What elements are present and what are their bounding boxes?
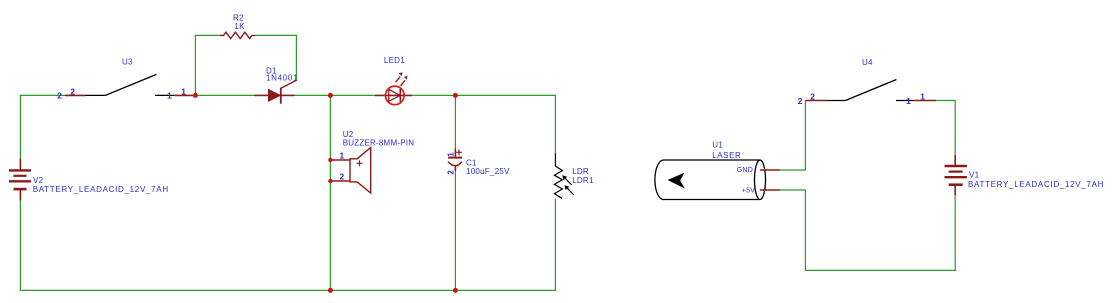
diode D1 — [255, 80, 297, 103]
LED LED1 — [375, 72, 412, 104]
svg-text:1K: 1K — [234, 22, 245, 31]
battery V1 — [945, 155, 967, 195]
battery V2 — [9, 159, 31, 201]
svg-text:V2: V2 — [33, 176, 44, 185]
wire top-left horizontal (battery V2 top to switch U3 pin2) — [20, 94, 65, 96]
svg-text:2: 2 — [70, 87, 75, 97]
wire C1 vertical lower — [454, 171, 456, 291]
switch U4 — [805, 80, 936, 101]
svg-text:2: 2 — [810, 92, 815, 102]
wire right vertical lower (LDR bottom to bottom rail) — [554, 199, 556, 291]
svg-text:BATTERY_LEADACID_12V_7AH: BATTERY_LEADACID_12V_7AH — [968, 180, 1104, 189]
wire right vertical upper (top rail corner to LDR top) — [554, 95, 556, 153]
svg-text:100uF_25V: 100uF_25V — [466, 167, 510, 176]
junction node (buzzer pin2) — [328, 179, 332, 183]
wire bottom rail — [20, 289, 556, 291]
svg-text:U1: U1 — [712, 140, 723, 149]
junction node (buzzer pin1) — [328, 158, 332, 162]
junction node (buzzer top rail) — [328, 93, 333, 98]
junction node (C1 bottom rail) — [453, 288, 458, 293]
svg-text:U3: U3 — [122, 57, 133, 66]
wire R2 branch left vertical — [194, 35, 196, 95]
wire top rail (LED1 to C1 junction) — [412, 94, 455, 96]
wire left vertical lower (V2 bottom to bottom rail) — [19, 201, 21, 292]
svg-text:LDR1: LDR1 — [572, 176, 594, 185]
svg-text:V1: V1 — [969, 171, 980, 180]
wire R2 branch top-right horizontal — [255, 34, 297, 36]
svg-text:1: 1 — [446, 152, 455, 157]
U1 +5V pin stub — [760, 189, 780, 191]
svg-text:+5V: +5V — [742, 187, 755, 194]
laser module U1 (cylinder body) — [655, 160, 766, 200]
wire C1 vertical upper — [454, 95, 456, 148]
svg-text:LED1: LED1 — [384, 56, 405, 65]
svg-text:1: 1 — [181, 87, 186, 97]
photoresistor LDR1 — [554, 153, 562, 199]
svg-text:1N4001: 1N4001 — [266, 74, 298, 83]
wire buzzer U2 vertical — [329, 95, 331, 291]
wire battery V1 bottom vertical — [954, 195, 956, 271]
junction node (buzzer bottom rail) — [328, 288, 333, 293]
buzzer U2 — [330, 148, 370, 194]
wire laser +5V right, down and along bottom rail — [780, 190, 956, 270]
wire R2 branch right vertical (down to D1 cathode) — [295, 35, 297, 81]
LDR light arrows — [562, 175, 574, 195]
wire laser GND right and up to switch U4 — [780, 101, 805, 171]
svg-text:2: 2 — [798, 96, 803, 106]
switch U3 — [65, 74, 195, 95]
svg-text:1: 1 — [340, 151, 345, 161]
svg-text:LDR: LDR — [572, 167, 589, 176]
junction node (switch U3 pin1 / R2 branch) — [193, 93, 198, 98]
resistor R2 — [220, 32, 255, 38]
svg-text:1: 1 — [906, 96, 911, 106]
U1 GND pin stub — [760, 169, 780, 171]
wire left vertical upper (to V2 top lead) — [19, 95, 21, 158]
svg-text:2: 2 — [446, 170, 455, 175]
wire top rail (C1 junction to right corner) — [455, 94, 556, 96]
svg-text:GND: GND — [737, 167, 753, 174]
svg-text:2: 2 — [340, 172, 345, 182]
wire battery V1 top to switch U4 pin1 — [936, 101, 955, 155]
svg-text:R2: R2 — [233, 13, 244, 22]
svg-text:2: 2 — [57, 91, 62, 101]
svg-text:LASER: LASER — [712, 151, 741, 160]
svg-text:BATTERY_LEADACID_12V_7AH: BATTERY_LEADACID_12V_7AH — [33, 185, 169, 194]
svg-text:BUZZER-8MM-PIN: BUZZER-8MM-PIN — [343, 139, 415, 148]
svg-text:1: 1 — [167, 91, 172, 101]
laser beam arrow — [668, 173, 685, 189]
svg-text:U2: U2 — [343, 130, 354, 139]
svg-text:1: 1 — [920, 92, 925, 102]
svg-text:U4: U4 — [862, 58, 873, 67]
wire top rail (switch U3 pin1 to D1) — [195, 94, 254, 96]
wire R2 branch top-left horizontal — [195, 34, 220, 36]
capacitor C1 — [448, 148, 462, 171]
junction node (C1 top rail) — [453, 93, 458, 98]
wire top rail (D1 to LED1) — [295, 94, 376, 96]
